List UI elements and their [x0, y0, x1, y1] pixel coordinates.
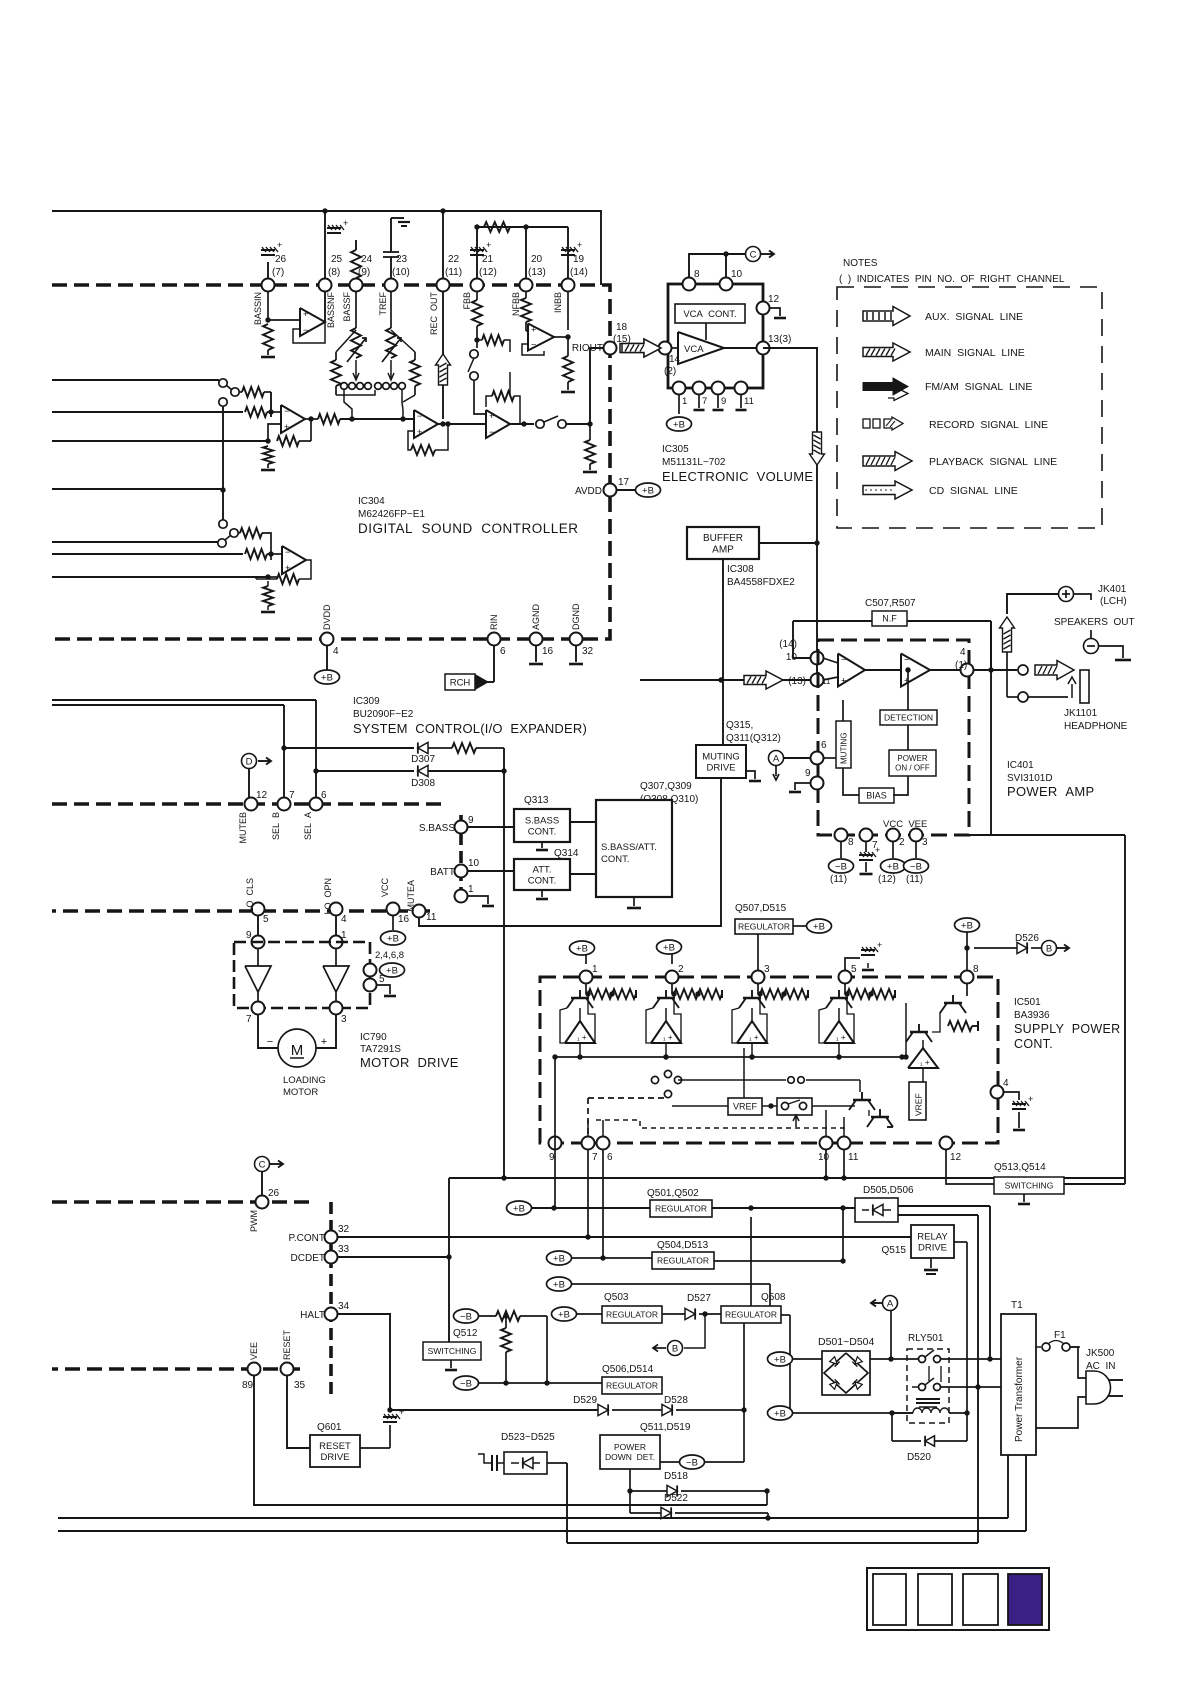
wire to pins 10 11: [825, 1110, 827, 1136]
pin PA 7: [860, 829, 873, 842]
bridge rectifier: [822, 1351, 870, 1395]
svg-text:DRIVE: DRIVE: [918, 1242, 947, 1253]
svg-text:Q507,D515: Q507,D515: [735, 903, 787, 914]
variable resistor BASSF: [355, 292, 357, 328]
wire U2 feedback: [436, 423, 443, 425]
resistor FBB loop: [477, 339, 482, 341]
op-amp U2 mid: [414, 410, 438, 438]
svg-text:ATT.: ATT.: [533, 864, 552, 875]
svg-text:6: 6: [821, 740, 827, 751]
svg-text:18: 18: [616, 322, 628, 333]
svg-text:−B: −B: [835, 861, 847, 872]
motor driver amp 1: [245, 966, 271, 992]
wire pin4 out: [974, 669, 1017, 671]
supply cell5 transistor2: [910, 1031, 928, 1033]
svg-text:+B: +B: [553, 1279, 565, 1290]
wire PA to switching net: [969, 834, 1125, 836]
svg-text:6: 6: [607, 1152, 613, 1163]
pin IC305-13: [757, 342, 770, 355]
wire FBB to U3: [474, 394, 486, 414]
minus B q512b: [454, 1376, 479, 1390]
plus B pin2: [892, 842, 894, 858]
svg-text:11: 11: [848, 1152, 859, 1163]
resistor FBB: [472, 300, 482, 326]
wire plug bottom: [1036, 1397, 1086, 1428]
svg-text:D505,D506: D505,D506: [863, 1185, 914, 1196]
wire input line 1: [52, 379, 219, 381]
supply cell Q504 op-amp: [824, 1021, 854, 1043]
switch box supply: [768, 1103, 773, 1108]
buffer amp box: [687, 527, 759, 559]
wire q508 down: [750, 1217, 752, 1306]
svg-text:REC OUT: REC OUT: [429, 292, 439, 336]
svg-text:AMP: AMP: [712, 544, 734, 555]
svg-text:+B: +B: [887, 861, 899, 872]
wire input line 5: [52, 541, 218, 543]
plus B q504b: [547, 1277, 572, 1291]
svg-text:RIN: RIN: [489, 615, 499, 631]
svg-text:9: 9: [549, 1152, 555, 1163]
switch FBB: [470, 350, 478, 358]
power transformer box: [1001, 1314, 1036, 1455]
power down det box: [600, 1435, 660, 1469]
resistor INBB gnd: [567, 337, 569, 356]
svg-text:4: 4: [1003, 1078, 1009, 1089]
pin 9 motor: [252, 936, 265, 949]
svg-text:(14): (14): [570, 267, 588, 278]
svg-text:LO CLS: LO CLS: [245, 878, 255, 913]
svg-text:PLAYBACK SIGNAL LINE: PLAYBACK SIGNAL LINE: [929, 456, 1057, 468]
wire D308 right: [428, 770, 504, 772]
svg-text:JK500: JK500: [1086, 1348, 1115, 1359]
resistor out gnd: [589, 424, 591, 440]
wire motor left: [258, 1015, 278, 1048]
wire reset drive out: [360, 1447, 390, 1449]
pin IC305-14: [659, 342, 672, 355]
jack bar: [1080, 670, 1089, 703]
ground q314: [541, 890, 543, 897]
S.BASS/ATT CONT box: [596, 800, 672, 897]
plus B pin8 net: [966, 932, 968, 970]
svg-text:DOWN DET.: DOWN DET.: [605, 1452, 655, 1462]
speaker up arrow: [1000, 617, 1015, 652]
wire pin9 left: [554, 1057, 556, 1130]
svg-text:7: 7: [289, 790, 295, 801]
svg-text:2: 2: [678, 964, 684, 975]
page indicator frame: [867, 1568, 1049, 1630]
pin 7 motor: [252, 1002, 265, 1015]
wire vca cont to vca: [705, 323, 707, 340]
switch S2: [218, 539, 226, 547]
minus B pdd: [660, 1461, 681, 1463]
motor driver amp 2: [323, 966, 349, 992]
svg-text:7: 7: [592, 1152, 598, 1163]
wire input line 7: [52, 576, 268, 578]
svg-text:SUPPLY POWER: SUPPLY POWER: [1014, 1022, 1120, 1036]
svg-text:NFBB: NFBB: [511, 292, 521, 316]
wire motor right: [316, 1015, 336, 1048]
svg-text:1: 1: [682, 396, 687, 407]
pin PWM 26: [256, 1196, 269, 1209]
svg-text:(9): (9): [358, 267, 370, 278]
relay dashed box: [907, 1349, 949, 1423]
svg-text:9: 9: [468, 815, 474, 826]
svg-text:REGULATOR: REGULATOR: [657, 1255, 709, 1265]
wire pin3 up: [757, 934, 759, 970]
svg-text:Q513,Q514: Q513,Q514: [994, 1162, 1046, 1173]
svg-text:RIOUT: RIOUT: [572, 343, 603, 354]
svg-text:+: +: [1028, 1094, 1033, 1104]
svg-text:IC305: IC305: [662, 444, 689, 455]
legend PLAYBACK arrow: [863, 452, 912, 471]
svg-text:IC308: IC308: [727, 564, 754, 575]
switch out: [536, 420, 544, 428]
svg-text:D308: D308: [411, 778, 435, 789]
pin RESET 35: [281, 1363, 294, 1376]
svg-text:CONT.: CONT.: [601, 854, 630, 865]
svg-text:5: 5: [851, 964, 857, 975]
svg-text:(7): (7): [272, 267, 284, 278]
diode D520: [891, 1413, 893, 1441]
pin VCC 16: [387, 903, 400, 916]
svg-text:+B: +B: [673, 419, 685, 430]
svg-text:D520: D520: [907, 1452, 931, 1463]
svg-text:D522: D522: [664, 1493, 688, 1504]
minus terminal: [1090, 630, 1092, 639]
trimmer contacts: [341, 383, 348, 390]
resistor FBB fb2: [509, 372, 511, 396]
svg-text:VCA: VCA: [684, 344, 704, 355]
resistor left of trimmer: [335, 352, 337, 360]
wire plug top: [1070, 1347, 1086, 1378]
pin 24 BASSF: [350, 279, 363, 292]
svg-text:IC304: IC304: [358, 496, 385, 507]
legend CD arrow: [863, 481, 912, 499]
svg-text:MAIN SIGNAL LINE: MAIN SIGNAL LINE: [925, 347, 1025, 359]
NOTES dashed box: [837, 287, 1102, 528]
svg-text:+B: +B: [513, 1203, 525, 1214]
pin 23 TREF: [385, 279, 398, 292]
long wire A: [58, 1517, 1008, 1519]
pin PA 11: [811, 674, 824, 687]
wire U5 to pin25: [324, 292, 326, 322]
wire vertical Q512 net: [448, 1178, 450, 1342]
BIAS box: [843, 768, 859, 795]
wire sbass: [468, 826, 514, 828]
svg-text:POWER: POWER: [897, 754, 927, 763]
headphone arrow: [1035, 661, 1074, 680]
pin PA 9: [811, 777, 824, 790]
resistor U6 gnd: [267, 581, 269, 586]
svg-text:21: 21: [482, 254, 494, 265]
ground pin11: [740, 394, 742, 408]
svg-text:26: 26: [275, 254, 287, 265]
svg-text:Power Transformer: Power Transformer: [1014, 1356, 1025, 1442]
supply cell5 transistor: [966, 984, 968, 996]
svg-text:IC401: IC401: [1007, 760, 1034, 771]
wire q513 net: [946, 1150, 994, 1184]
svg-text:SYSTEM CONTROL(I/O EXPANDER): SYSTEM CONTROL(I/O EXPANDER): [353, 721, 587, 736]
pin MUTEA 11: [413, 905, 426, 918]
switch jack upper: [1018, 665, 1028, 675]
svg-text:VCA CONT.: VCA CONT.: [683, 309, 736, 320]
svg-text:1: 1: [592, 964, 598, 975]
svg-text:REGULATOR: REGULATOR: [738, 921, 790, 931]
svg-text:POWER: POWER: [614, 1442, 646, 1452]
regulator Q501 box: [650, 1200, 712, 1217]
svg-text:+: +: [321, 1036, 327, 1048]
svg-text:6: 6: [321, 790, 327, 801]
svg-text:RESET: RESET: [282, 1329, 292, 1360]
wire cell3 to vref: [743, 1048, 745, 1098]
svg-text:(10): (10): [392, 267, 410, 278]
wire right net down: [990, 621, 992, 835]
wire coil left: [892, 1412, 913, 1414]
svg-text:Q307,Q309: Q307,Q309: [640, 781, 692, 792]
svg-text:(14): (14): [779, 639, 797, 650]
wire minus: [1098, 646, 1123, 658]
svg-text:12: 12: [950, 1152, 962, 1163]
diode D307: [284, 747, 414, 749]
C terminal low: [255, 1157, 270, 1172]
svg-text:DRIVE: DRIVE: [706, 762, 735, 773]
svg-text:₁ +: ₁ +: [836, 1033, 846, 1042]
svg-text:REGULATOR: REGULATOR: [606, 1309, 658, 1319]
svg-text:B: B: [1046, 944, 1052, 955]
svg-text:JK1101: JK1101: [1064, 708, 1098, 719]
wire HALT: [338, 1314, 390, 1410]
svg-text:+: +: [489, 411, 494, 421]
svg-text:D526: D526: [1015, 933, 1039, 944]
svg-text:9: 9: [805, 768, 811, 779]
svg-text:+: +: [277, 240, 282, 250]
svg-text:−: −: [285, 547, 290, 557]
svg-text:MUTEB: MUTEB: [238, 812, 248, 844]
ground DGND: [575, 646, 577, 662]
resistor at pin 24: [355, 240, 357, 250]
svg-text:AVDD: AVDD: [575, 486, 602, 497]
wire NF right: [990, 621, 992, 670]
pin 22 REC OUT: [437, 279, 450, 292]
micro dashed boundary: [52, 1200, 310, 1204]
svg-text:DGND: DGND: [571, 603, 581, 630]
wire P.CONT: [338, 1236, 911, 1238]
relay coil core: [916, 1398, 940, 1400]
svg-text:D529: D529: [573, 1395, 597, 1406]
regulator Q503 box: [602, 1306, 662, 1323]
wire q513 right: [1064, 1183, 1125, 1185]
svg-text:−: −: [531, 340, 536, 350]
svg-text:(2): (2): [664, 366, 676, 377]
svg-text:ELECTRONIC VOLUME: ELECTRONIC VOLUME: [662, 469, 813, 484]
capacitor d523: [497, 1462, 504, 1464]
supply cell Q502 transistor: [671, 984, 673, 994]
pin P.CONT 32: [325, 1231, 338, 1244]
svg-text:C507,R507: C507,R507: [865, 598, 916, 609]
svg-text:(13): (13): [528, 267, 546, 278]
wire U4 out: [554, 336, 568, 338]
trimmer arrows: [355, 360, 357, 378]
resistor in5: [238, 532, 240, 534]
svg-text:−B: −B: [460, 1311, 472, 1322]
svg-text:7: 7: [702, 396, 707, 407]
svg-text:3: 3: [764, 964, 770, 975]
wire A down: [890, 1311, 892, 1359]
wire plus right: [1073, 594, 1091, 600]
svg-text:34: 34: [338, 1301, 350, 1312]
NF box: [793, 620, 872, 622]
wire bias right: [893, 776, 908, 795]
svg-text:Q315,: Q315,: [726, 720, 753, 731]
relay coil: [913, 1408, 949, 1413]
capacitor at pin 19: [567, 227, 569, 279]
svg-text:BA3936: BA3936: [1014, 1010, 1050, 1021]
A terminal bridge: [883, 1296, 898, 1311]
ground pin12: [770, 308, 780, 316]
svg-text:RLY501: RLY501: [908, 1333, 944, 1344]
svg-text:+B: +B: [774, 1408, 786, 1419]
svg-text:24: 24: [361, 254, 373, 265]
ground pin9: [717, 394, 719, 408]
wire U1a feedback: [268, 424, 281, 441]
pin 1 IC309: [455, 890, 468, 903]
svg-text:Q503: Q503: [604, 1292, 629, 1303]
pin 3 motor: [330, 1002, 343, 1015]
capacitor pin7: [865, 842, 867, 852]
resistor top feedback: [484, 222, 510, 232]
svg-text:−: −: [284, 406, 289, 416]
diode D505 box: [855, 1198, 898, 1222]
op-amp U6: [282, 546, 306, 574]
svg-text:+: +: [577, 240, 582, 250]
C terminal: [746, 247, 761, 262]
wire d528 up: [743, 1323, 745, 1410]
svg-text:Q504,D513: Q504,D513: [657, 1240, 709, 1251]
op-amp U4 INBB: [526, 330, 528, 332]
wire pin14 to vca: [671, 347, 678, 349]
D terminal: [242, 754, 257, 769]
wire U4 plus loop: [522, 344, 544, 355]
svg-text:B: B: [672, 1344, 678, 1355]
supply cell5 op-amp: [908, 1048, 938, 1068]
svg-text:+B: +B: [813, 921, 825, 932]
wire d522 end: [767, 1513, 769, 1518]
svg-text:9: 9: [721, 396, 726, 407]
reset drive box: [310, 1435, 360, 1467]
svg-text:RECORD SIGNAL LINE: RECORD SIGNAL LINE: [929, 419, 1048, 431]
arrow below A: [775, 766, 777, 776]
minus B pin8: [840, 842, 842, 858]
svg-text:D307: D307: [411, 754, 435, 765]
svg-text:SEL A: SEL A: [303, 812, 313, 840]
plus B q507: [793, 925, 807, 927]
arrow under switch: [795, 1117, 797, 1127]
svg-text:A: A: [887, 1299, 894, 1310]
svg-text:Q515: Q515: [882, 1245, 907, 1256]
pin DGND 32: [570, 633, 583, 646]
svg-text:BU2090F−E2: BU2090F−E2: [353, 709, 414, 720]
switching box Q513: [994, 1177, 1064, 1194]
pin PA 4: [961, 664, 974, 677]
svg-text:Q508: Q508: [761, 1292, 786, 1303]
page square 4 filled: [1008, 1574, 1042, 1625]
svg-text:SPEAKERS OUT: SPEAKERS OUT: [1054, 617, 1135, 628]
plus B q504: [547, 1251, 572, 1265]
svg-text:RELAY: RELAY: [917, 1231, 948, 1242]
pin SEL B 7: [278, 798, 291, 811]
wire input line 3: [52, 440, 268, 442]
svg-text:20: 20: [531, 254, 543, 265]
page square 1: [873, 1574, 906, 1625]
wire pin7 up: [587, 1120, 589, 1136]
resistor feedback U6: [277, 574, 299, 584]
page square 3: [963, 1574, 998, 1625]
ground pin1: [468, 896, 488, 904]
svg-text:25: 25: [331, 254, 343, 265]
plus B bridge 1: [768, 1352, 793, 1366]
pin PA 8: [835, 829, 848, 842]
wire vref net: [672, 1105, 728, 1107]
svg-text:VREF: VREF: [914, 1093, 924, 1116]
svg-text:89: 89: [242, 1380, 254, 1391]
wire U6 out loop: [271, 545, 312, 560]
wire input line 4: [52, 488, 222, 490]
supply cell Q504 resistors: [844, 991, 849, 996]
svg-text:Q313: Q313: [524, 795, 549, 806]
svg-text:26: 26: [268, 1188, 280, 1199]
svg-text:D: D: [246, 757, 253, 768]
svg-text:ON / OFF: ON / OFF: [895, 764, 930, 773]
svg-text:+: +: [877, 940, 882, 950]
wire C terminal net: [689, 254, 745, 284]
wire mutea: [419, 778, 721, 926]
svg-text:CONT.: CONT.: [528, 875, 557, 886]
pin LO CLS 5: [252, 903, 265, 916]
supply bus wire: [555, 1056, 902, 1058]
svg-text:−B: −B: [686, 1457, 698, 1468]
svg-text:10: 10: [468, 858, 480, 869]
svg-text:13(3): 13(3): [768, 334, 791, 345]
resistor right of trimmer: [414, 352, 416, 360]
wire q313 to cont: [570, 821, 596, 823]
AC plug: [1086, 1371, 1111, 1404]
wire trimmer bottom joins: [336, 390, 375, 395]
resistor q512v: [501, 1328, 511, 1352]
resistor BASSIN gnd: [263, 324, 273, 350]
svg-text:−: −: [841, 655, 846, 665]
svg-text:IC501: IC501: [1014, 997, 1041, 1008]
wire A to pin6: [784, 757, 810, 759]
svg-text:D501~D504: D501~D504: [818, 1336, 874, 1348]
resistor after D307: [428, 747, 452, 749]
supply cell Q503 transistor: [757, 984, 759, 994]
svg-text:JK401: JK401: [1098, 584, 1127, 595]
svg-text:DETECTION: DETECTION: [884, 712, 933, 722]
svg-text:₁ +: ₁ +: [663, 1033, 673, 1042]
IC309 dashed boundary: [52, 802, 448, 806]
pin 20 NFBB: [520, 279, 533, 292]
wire feedback top net: [477, 226, 568, 228]
wire switch right: [812, 1105, 855, 1107]
ground relay drive: [930, 1258, 932, 1268]
svg-text:HALT: HALT: [300, 1310, 325, 1321]
wire amp2: [335, 948, 337, 966]
svg-text:Q601: Q601: [317, 1422, 342, 1433]
record arrow up: [436, 354, 451, 385]
svg-text:19: 19: [573, 254, 585, 265]
MUTING box: [836, 721, 851, 768]
svg-text:−: −: [489, 427, 494, 437]
